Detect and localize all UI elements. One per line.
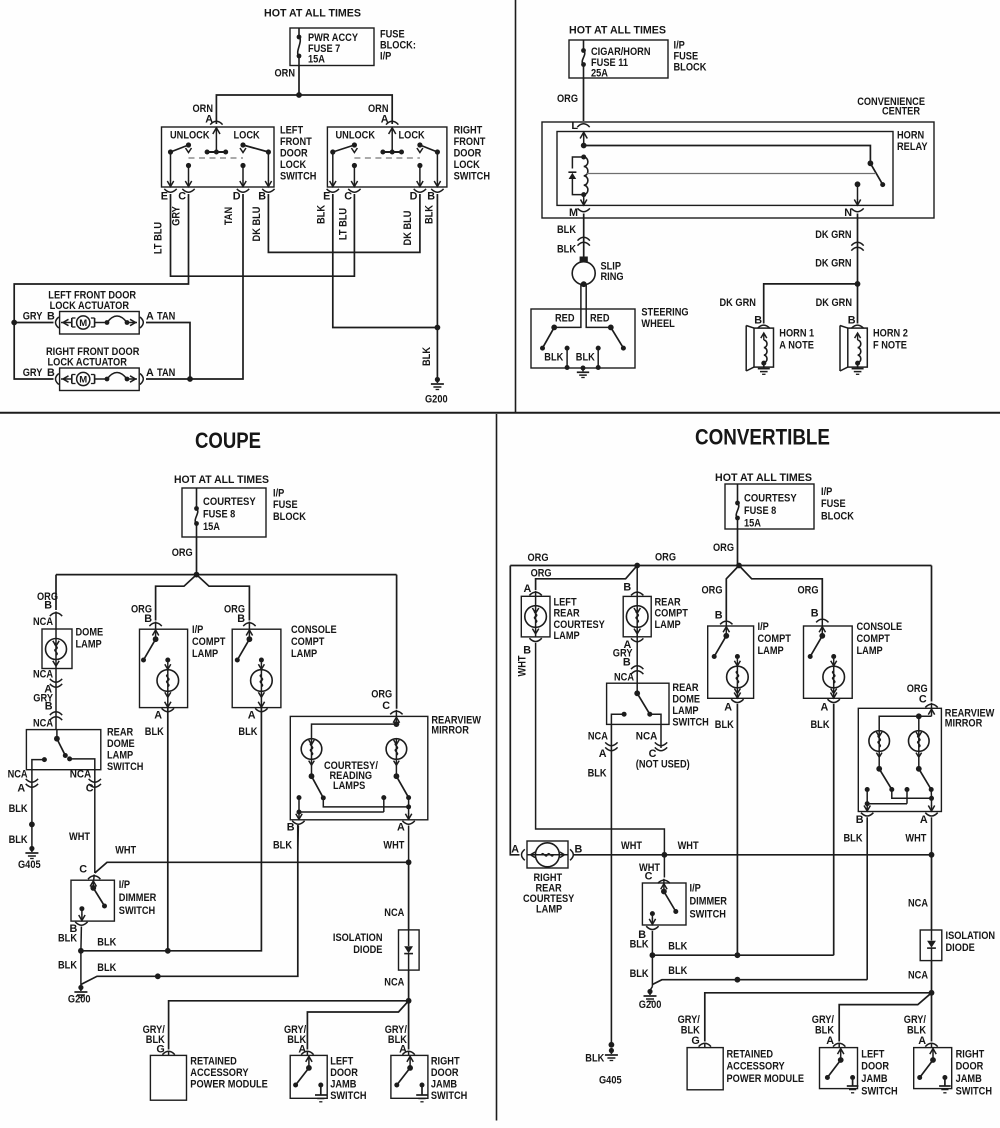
svg-text:BLK: BLK [58, 933, 77, 945]
svg-text:BLK: BLK [668, 941, 687, 953]
svg-text:UNLOCK: UNLOCK [170, 130, 210, 142]
label RED RED [555, 313, 610, 325]
label I/P FUSE BLOCK horn [674, 40, 707, 74]
svg-text:A: A [17, 783, 25, 795]
svg-text:BLK: BLK [630, 939, 649, 951]
svg-text:DOOR: DOOR [280, 148, 308, 160]
svg-text:BLK: BLK [97, 962, 116, 974]
svg-text:WHT: WHT [621, 840, 642, 852]
svg-text:NCA: NCA [70, 769, 92, 781]
label HOT AT ALL TIMES coupe [174, 474, 269, 486]
svg-text:E: E [323, 191, 330, 203]
svg-text:15A: 15A [203, 521, 220, 533]
horn H2 HORN 2 F NOTE [840, 326, 908, 375]
svg-text:WHT: WHT [678, 840, 699, 852]
label A right rear courtesy [511, 844, 519, 856]
lamp mirror left coupe [301, 739, 322, 777]
svg-text:ORG: ORG [655, 552, 676, 564]
label GRY B right actuator [23, 367, 55, 379]
connector pair into rear dome switch [50, 712, 62, 720]
wire BLK ip compt down conv [736, 704, 738, 955]
label LEFT REAR COURTESY LAMP [554, 597, 606, 643]
label REAR COMPT LAMP [655, 597, 689, 632]
svg-text:BLOCK: BLOCK [821, 511, 854, 523]
svg-text:B: B [754, 315, 762, 327]
wire ORG main bus coupe [56, 574, 397, 576]
horn switch right lever [608, 325, 626, 351]
svg-text:SWITCH: SWITCH [861, 1086, 898, 1098]
svg-text:CONSOLE: CONSOLE [857, 621, 903, 633]
label REAR DOME LAMP SWITCH coupe [107, 727, 144, 774]
wire relay coil to armature (gray) [587, 173, 877, 175]
svg-text:B: B [47, 311, 55, 323]
svg-text:B: B [237, 613, 245, 625]
connector cup horn 2 [851, 325, 863, 328]
svg-text:SWITCH: SWITCH [119, 905, 156, 917]
svg-text:FUSE: FUSE [821, 498, 846, 510]
svg-text:LAMP: LAMP [192, 648, 218, 660]
wire relay contact feed [584, 146, 871, 164]
node relay L junction [581, 143, 587, 149]
relay coil out M [581, 195, 587, 205]
svg-text:HORN 2: HORN 2 [873, 328, 908, 340]
pin L + cup [571, 120, 589, 132]
svg-text:NCA: NCA [384, 907, 404, 919]
mirror contacts and links conv [865, 787, 934, 806]
svg-text:B: B [811, 608, 819, 620]
svg-text:C: C [919, 694, 927, 706]
svg-text:WHT: WHT [905, 833, 926, 845]
label GRY/BLK A right jamb coupe [385, 1024, 407, 1056]
connector inline DK GRN [851, 242, 863, 250]
wire WHT bus conv [573, 854, 932, 856]
svg-text:LOCK: LOCK [454, 159, 480, 171]
wire BLK bus1 coupe [81, 708, 262, 951]
connector cup mirror A conv [920, 813, 938, 826]
svg-text:I/P: I/P [273, 488, 284, 500]
svg-text:A: A [146, 367, 154, 379]
wire LT BLU left E to right C [153, 194, 355, 276]
box RETAINED ACCESSORY POWER MODULE conv [687, 1043, 723, 1090]
wire ORG fuse to junction coupe [172, 537, 197, 575]
connector cup left rear courtesy [529, 592, 541, 595]
svg-text:ORG: ORG [371, 689, 392, 701]
svg-text:NCA: NCA [33, 718, 53, 730]
label STEERING WHEEL [641, 307, 688, 331]
connector cup left rear courtesy B [529, 638, 541, 641]
svg-text:RIGHT: RIGHT [454, 125, 483, 137]
switch RIGHT DOOR JAMB SWITCH conv [914, 1043, 952, 1093]
svg-text:B: B [45, 701, 53, 713]
svg-text:M: M [79, 374, 87, 385]
node BLK junction coupe [78, 948, 84, 954]
node DK GRN junction [855, 281, 861, 287]
wire DK GRN to horn 1 [720, 284, 858, 327]
svg-text:C: C [645, 871, 653, 883]
connector cup mirror B coupe [287, 821, 305, 834]
svg-text:DOOR: DOOR [454, 148, 482, 160]
label A GRY B rear compt chain [613, 639, 633, 669]
label A BLK ip compt coupe [145, 710, 164, 739]
svg-text:BLK: BLK [97, 936, 116, 948]
wire GRY/BLK to left door jamb conv [839, 993, 931, 1042]
wire TAN left D down [190, 194, 243, 379]
svg-text:B: B [623, 657, 631, 669]
svg-text:DIMMER: DIMMER [690, 896, 728, 908]
svg-text:LAMP: LAMP [536, 904, 562, 916]
svg-text:BLK: BLK [630, 968, 649, 980]
svg-text:HORN: HORN [897, 130, 924, 142]
node WHT junction coupe [406, 859, 412, 865]
wire WHT mirror A down conv [905, 817, 931, 855]
svg-text:LAMP: LAMP [554, 630, 580, 642]
box RETAINED ACCESSORY POWER MODULE coupe [150, 1051, 186, 1100]
svg-text:TAN: TAN [223, 207, 235, 225]
title COUPE [195, 428, 261, 453]
node BLK junction conv [650, 952, 656, 958]
connector cup rear compt A out [631, 638, 643, 641]
wire dimmer B to junction [80, 927, 83, 951]
svg-text:FRONT: FRONT [454, 136, 486, 148]
label ORG B console [224, 604, 245, 626]
wire GRY left C to actuators [14, 194, 188, 323]
svg-text:BLK: BLK [544, 352, 563, 364]
svg-text:WHT: WHT [517, 655, 529, 676]
svg-text:BLK: BLK [668, 965, 687, 977]
svg-text:ORG: ORG [531, 568, 552, 580]
svg-text:(NOT USED): (NOT USED) [636, 759, 690, 771]
slip ring [572, 257, 623, 288]
ground G405 conv [599, 1048, 622, 1087]
motor M1 LEFT FRONT DOOR LOCK ACTUATOR [56, 312, 144, 335]
svg-text:M: M [79, 318, 87, 329]
svg-text:BLK: BLK [588, 768, 607, 780]
svg-text:LAMP: LAMP [857, 645, 883, 657]
label ORG mid bus [655, 552, 676, 564]
label RETAINED ACCESSORY POWER MODULE conv [727, 1049, 805, 1086]
svg-text:A: A [248, 710, 256, 722]
svg-text:RED: RED [590, 313, 610, 325]
svg-text:C: C [344, 191, 352, 203]
wire ORG to right rear courtesy [510, 566, 519, 855]
label ORN right [368, 103, 389, 126]
fuse COURTESY FUSE 8 15A coupe [194, 488, 256, 537]
wire GRY/BLK to left door jamb coupe [307, 1001, 408, 1050]
svg-text:LAMP: LAMP [291, 648, 317, 660]
label REARVIEW MIRROR coupe [431, 715, 481, 737]
label RIGHT FRONT DOOR LOCK SWITCH [454, 125, 491, 183]
lamp RIGHT REAR COURTESY LAMP [527, 841, 568, 868]
wire BLK mirror B down conv [844, 817, 868, 979]
svg-text:G200: G200 [68, 994, 91, 1006]
svg-text:DIODE: DIODE [353, 944, 382, 956]
svg-text:D: D [233, 191, 241, 203]
label CONVENIENCE CENTER [857, 96, 925, 118]
ground G200 top-left [425, 377, 448, 406]
wire ORG fuse to convenience center [557, 78, 584, 121]
label ORG C mirror coupe [371, 689, 392, 713]
pin B left + cup [258, 189, 274, 203]
svg-text:M: M [569, 207, 578, 219]
box REARVIEW MIRROR conv [858, 703, 941, 812]
svg-text:COMPT: COMPT [291, 636, 325, 648]
connector cup right rear courtesy A [522, 849, 525, 860]
wire GRY/BLK to RAPM conv [705, 993, 932, 1042]
pin C right + cup [344, 189, 360, 203]
lamp LEFT REAR COURTESY LAMP [521, 591, 550, 637]
connector cup dimmer B out conv [646, 926, 658, 929]
label NCA pin C coupe switch [70, 769, 94, 795]
svg-text:LAMP: LAMP [76, 639, 102, 651]
svg-text:B: B [856, 814, 864, 826]
svg-text:I/P: I/P [119, 879, 130, 891]
wire double to steering wheel [554, 285, 611, 328]
svg-text:ISOLATION: ISOLATION [946, 930, 996, 942]
svg-text:HOT AT ALL TIMES: HOT AT ALL TIMES [174, 474, 269, 486]
svg-text:NCA: NCA [33, 616, 53, 628]
label ORG main bus left [528, 552, 549, 564]
svg-text:B: B [523, 645, 531, 657]
label LEFT FRONT DOOR LOCK ACTUATOR [48, 290, 136, 313]
svg-text:BLK: BLK [145, 726, 164, 738]
connector pair dome out [50, 679, 62, 687]
label A TAN right actuator [146, 367, 175, 379]
label RIGHT DOOR JAMB SWITCH coupe [431, 1056, 468, 1103]
svg-text:BLK: BLK [715, 719, 734, 731]
ground G200 coupe [68, 985, 91, 1006]
label HOT AT ALL TIMES conv [715, 472, 812, 484]
svg-text:BLK: BLK [576, 352, 595, 364]
splice BLK bus2 [155, 973, 161, 979]
divider vertical bottom [496, 414, 498, 1121]
label B BLK dimmer conv [630, 929, 649, 951]
label ISOLATION DIODE conv [946, 930, 996, 954]
svg-text:G200: G200 [639, 999, 662, 1011]
svg-text:15A: 15A [308, 54, 325, 66]
node GRY/BLK junction conv [929, 990, 935, 996]
lamp I/P COMPT LAMP conv [708, 620, 754, 699]
svg-text:BLK: BLK [238, 726, 257, 738]
label NCA above rear dome switch conv [614, 672, 634, 684]
connector cup dimmer C conv [658, 880, 670, 883]
connector cup right rear courtesy B [570, 844, 583, 861]
wire BLK relay M to slip ring [557, 214, 584, 257]
ground steering wheel [577, 366, 589, 378]
fuse block box coupe [182, 488, 266, 537]
svg-text:BLK: BLK [421, 347, 433, 366]
svg-text:B: B [144, 613, 152, 625]
mirror left lever coupe [309, 773, 326, 800]
wire DK GRN relay N down [815, 214, 857, 284]
horn switch contacts BLK [544, 346, 600, 370]
svg-text:SWITCH: SWITCH [672, 717, 709, 729]
label WHT left of node [621, 840, 642, 852]
mirror left lever conv [876, 766, 894, 792]
wire dimmer B to junction conv [651, 931, 653, 955]
svg-text:BLK: BLK [58, 960, 77, 972]
label NCA pin A conv switch [588, 731, 608, 761]
wire dome to rear dome switch [55, 669, 57, 730]
fuse block box conv [725, 484, 814, 529]
label HOT AT ALL TIMES horn [569, 25, 666, 37]
wire BLK bus2 coupe [81, 825, 298, 985]
connector cup rear compt B [631, 592, 643, 595]
lamp mirror right coupe [386, 739, 407, 777]
label RIGHT DOOR JAMB SWITCH conv [956, 1049, 993, 1098]
fuse PWR ACCY FUSE 7 15A [297, 28, 359, 66]
svg-text:BLK: BLK [424, 205, 436, 224]
relay fixed contact N [854, 181, 860, 205]
label I/P COMPT LAMP conv [758, 621, 792, 657]
wire ORG to rearview mirror [396, 575, 398, 709]
svg-text:B: B [44, 600, 52, 612]
svg-text:LT BLU: LT BLU [153, 222, 165, 254]
label NCA above rear dome switch [33, 718, 53, 730]
wire BLK rear dome A to G405 conv [588, 724, 612, 1044]
svg-text:LAMP: LAMP [107, 750, 133, 762]
svg-text:BLK: BLK [315, 205, 327, 224]
wire rear compt junction to box [636, 566, 638, 597]
svg-text:LOCK ACTUATOR: LOCK ACTUATOR [48, 357, 128, 369]
svg-text:GRY: GRY [171, 205, 183, 225]
fuse block I/P box [290, 28, 374, 66]
label FUSE BLOCK: I/P [380, 29, 416, 63]
fuse COURTESY FUSE 8 15A conv [735, 484, 797, 530]
connector cup RAPM conv [699, 1043, 711, 1046]
svg-text:B: B [427, 191, 435, 203]
connector cup mirror C coupe [390, 711, 402, 714]
svg-text:JAMB: JAMB [861, 1073, 887, 1085]
label B WHT left rear courtesy [517, 645, 532, 677]
svg-text:WHT: WHT [383, 840, 404, 852]
wire GRY/BLK to right door jamb conv [931, 993, 933, 1042]
connector cup console B conv [816, 619, 828, 622]
svg-text:LEFT: LEFT [861, 1049, 884, 1061]
wire NCA mirror A to diode [384, 862, 408, 930]
horn switch left lever [540, 325, 557, 351]
label RIGHT REAR COURTESY LAMP [523, 872, 575, 916]
wire BLK to G200 coupe [58, 951, 81, 987]
svg-text:G405: G405 [599, 1075, 622, 1087]
node GRY/BLK junction coupe [406, 998, 412, 1004]
svg-text:BLK: BLK [273, 840, 292, 852]
wire WHT bus coupe [95, 845, 409, 874]
svg-text:RED: RED [555, 313, 575, 325]
box HORN RELAY [557, 132, 893, 206]
mirror right lever conv [916, 766, 934, 792]
svg-text:E: E [161, 191, 168, 203]
svg-text:LOCK ACTUATOR: LOCK ACTUATOR [50, 300, 130, 312]
svg-text:C: C [382, 700, 390, 712]
svg-text:B: B [47, 367, 55, 379]
label B BLK dimmer coupe [58, 923, 78, 945]
connector pair A out conv [605, 742, 617, 750]
svg-text:DK GRN: DK GRN [816, 297, 853, 309]
svg-text:REAR: REAR [107, 727, 133, 739]
label NCA pin A coupe switch [8, 769, 28, 795]
wire ORG branch to ip compt conv [726, 566, 739, 621]
svg-text:15A: 15A [744, 518, 761, 530]
label REARVIEW MIRROR conv [945, 708, 995, 730]
wire NCA diode to junction conv [908, 961, 932, 993]
svg-text:A NOTE: A NOTE [779, 340, 814, 352]
label GRY/BLK G coupe [143, 1024, 165, 1056]
svg-text:SWITCH: SWITCH [454, 171, 491, 183]
svg-text:LOCK: LOCK [280, 159, 306, 171]
fuse block box horn [569, 40, 668, 78]
svg-text:ORN: ORN [275, 68, 296, 80]
label ORG B dome [37, 591, 58, 612]
box REARVIEW MIRROR coupe [290, 710, 428, 820]
svg-text:I/P: I/P [380, 51, 391, 63]
svg-text:ORG: ORG [713, 542, 734, 554]
wire BLK bus2 conv [652, 965, 867, 984]
svg-text:DK GRN: DK GRN [720, 297, 757, 309]
svg-text:A: A [920, 814, 928, 826]
svg-text:BLK: BLK [557, 244, 576, 256]
svg-text:A: A [397, 822, 405, 834]
svg-text:DOOR: DOOR [330, 1067, 358, 1079]
node ORG junction coupe [194, 572, 200, 578]
svg-text:DK BLU: DK BLU [251, 206, 263, 241]
wire BLK mirror B down coupe [273, 826, 298, 852]
label ORG B ip compt conv [702, 585, 723, 622]
svg-text:DK GRN: DK GRN [815, 258, 852, 270]
svg-text:NCA: NCA [908, 970, 928, 982]
diode ISOLATION DIODE coupe [399, 930, 420, 970]
svg-text:CONSOLE: CONSOLE [291, 624, 337, 636]
svg-text:FRONT: FRONT [280, 136, 312, 148]
wire WHT left rear courtesy to dimmer node [536, 643, 665, 855]
connector cup console A [255, 708, 267, 711]
label CONSOLE COMPT LAMP coupe [291, 624, 337, 660]
svg-text:COMPT: COMPT [192, 636, 226, 648]
svg-text:POWER MODULE: POWER MODULE [727, 1073, 805, 1085]
svg-text:DOME: DOME [107, 738, 135, 750]
switch REAR DOME LAMP SWITCH coupe [26, 730, 100, 770]
label GRY/BLK G conv [678, 1014, 700, 1047]
svg-text:RELAY: RELAY [897, 141, 928, 153]
svg-text:BLK: BLK [585, 1053, 604, 1065]
svg-text:GRY: GRY [23, 311, 43, 323]
label B rear compt [623, 582, 631, 594]
mirror contacts and links coupe [297, 795, 412, 814]
svg-text:DK BLU: DK BLU [402, 210, 414, 245]
svg-text:A: A [146, 311, 154, 323]
svg-text:BLK: BLK [811, 719, 830, 731]
wire ORN fuse to junction [275, 66, 300, 96]
svg-text:DOOR: DOOR [861, 1061, 889, 1073]
wire A TAN right actuator to node [146, 378, 190, 380]
svg-text:I/P: I/P [758, 621, 769, 633]
label I/P DIMMER SWITCH conv [690, 883, 728, 921]
svg-text:JAMB: JAMB [330, 1079, 356, 1091]
label I/P DIMMER SWITCH coupe [119, 879, 157, 917]
svg-text:TAN: TAN [157, 367, 175, 379]
wire GRY into left actuator [14, 322, 53, 324]
label A left rear courtesy [523, 583, 531, 595]
label GRY/BLK A left jamb coupe [284, 1024, 306, 1056]
svg-text:SWITCH: SWITCH [280, 171, 317, 183]
svg-text:I/P: I/P [192, 624, 203, 636]
connector cup dimmer B out [75, 922, 87, 925]
divider horizontal middle [0, 412, 1000, 414]
connector cup ip compt A [162, 708, 174, 711]
svg-text:LOCK: LOCK [234, 130, 260, 142]
connector cup mirror A coupe [397, 821, 415, 834]
label RETAINED ACCESSORY POWER MODULE coupe [190, 1056, 267, 1091]
pin B right + cup [427, 189, 443, 203]
